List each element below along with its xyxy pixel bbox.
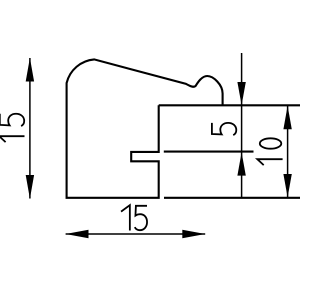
label 15 left <box>0 114 25 142</box>
top edge line (extends right as extension line) <box>159 104 300 106</box>
left dimension line 15 <box>29 58 31 199</box>
label 5 <box>212 123 236 135</box>
profile outline (moulding cross-section) <box>67 59 223 197</box>
bottom dimension line 15 <box>66 233 206 235</box>
bottom right line (extends right as extension line) <box>164 197 300 199</box>
dimension 5 line (continuous, also right edge of insert) <box>241 53 243 198</box>
middle line (rabbet seat) <box>164 151 254 153</box>
label 10 <box>257 138 282 165</box>
dimension line 10 <box>287 106 289 198</box>
label 15 bottom <box>121 205 147 230</box>
